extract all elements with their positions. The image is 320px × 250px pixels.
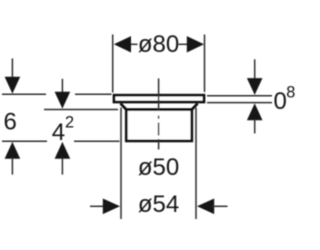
- dim 0-8 top reference line: [207, 95, 272, 97]
- svg-text:2: 2: [65, 113, 74, 131]
- svg-text:ø50: ø50: [138, 154, 179, 181]
- dim ø80 dimension line left stub: [130, 43, 138, 45]
- pipe socket cylinder: [126, 110, 192, 141]
- dim 6 upper arrow: [5, 77, 21, 94]
- dim ø54 dimension line right stub: [212, 205, 228, 207]
- dim ø80 arrow right: [187, 36, 204, 52]
- dim ø80 extension line left: [112, 35, 114, 93]
- dim 6 top reference line: [2, 93, 112, 95]
- dim ø54 dimension line left stub: [90, 205, 105, 207]
- dim ø54 extension line left: [120, 108, 122, 220]
- dim ø54 arrow right: [197, 199, 214, 215]
- dim 4+2 lower arrow: [55, 142, 71, 159]
- centerline (dash-dot): [158, 78, 160, 149]
- dim 6 lower arrow stem: [11, 158, 13, 175]
- dim 6 lower arrow: [5, 142, 21, 159]
- svg-text:4: 4: [52, 119, 65, 146]
- dim 4+2 lower arrow stem: [61, 158, 63, 175]
- svg-text:ø54: ø54: [138, 191, 179, 218]
- svg-text:8: 8: [286, 84, 295, 102]
- dim ø54 extension line right: [195, 108, 197, 220]
- dim 4+2 upper arrow: [55, 92, 71, 109]
- flange body outline: [114, 95, 204, 102]
- bottom reference line (shared by dims 6 and 4+2): [2, 140, 120, 142]
- dim 4+2 top reference line: [44, 109, 118, 111]
- dim 0-8 bottom reference line: [207, 102, 272, 104]
- dim 0-8 lower arrow stem: [254, 119, 256, 133]
- dim ø80 extension line right: [204, 35, 206, 93]
- dim 0-8 upper arrow stem: [254, 59, 256, 79]
- dim 4+2 upper arrow stem: [61, 79, 63, 93]
- flange taper (trapezoid sides): [121, 104, 198, 110]
- svg-text:6: 6: [4, 109, 17, 136]
- svg-text:0: 0: [274, 88, 287, 115]
- dim 6 upper arrow stem: [11, 58, 13, 78]
- dim ø80 arrow left: [114, 36, 131, 52]
- dim 0-8 upper arrow: [247, 78, 263, 95]
- dim 0-8 lower arrow: [247, 103, 263, 120]
- dim ø80 dimension line right stub: [179, 43, 188, 45]
- dim ø54 arrow left: [103, 199, 120, 215]
- svg-text:ø80: ø80: [138, 31, 179, 58]
